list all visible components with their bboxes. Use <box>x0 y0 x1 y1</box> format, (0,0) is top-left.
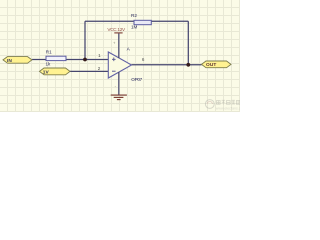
junction node at output <box>186 63 190 67</box>
svg-text:R2: R2 <box>131 13 137 18</box>
wire feedback right vertical <box>187 21 189 65</box>
svg-text:1k: 1k <box>46 61 52 66</box>
resistor R2 <box>131 13 151 29</box>
sheet background <box>0 0 240 112</box>
op-amp V+ pin <box>118 34 120 59</box>
svg-text:1M: 1M <box>131 24 138 29</box>
wire feedback top left segment <box>85 20 134 22</box>
junction node at inverting input <box>83 58 87 62</box>
wire IN port to R1 <box>32 59 46 61</box>
svg-text:IN: IN <box>7 58 12 64</box>
svg-text:1V: 1V <box>43 70 50 76</box>
op-amp U:A OP07 <box>98 34 145 95</box>
wire R1 to op-amp pin 1 <box>66 59 108 61</box>
svg-text:OP07: OP07 <box>131 77 142 82</box>
port IN <box>3 57 32 64</box>
ground <box>111 95 127 100</box>
watermark logo <box>205 100 245 111</box>
op-amp V- pin <box>118 72 120 95</box>
wire feedback left vertical <box>84 21 86 59</box>
svg-text:VCC 12V: VCC 12V <box>107 27 126 32</box>
svg-text:OUT: OUT <box>206 62 216 68</box>
wire feedback top right segment <box>151 20 188 22</box>
power VCC 12V <box>107 27 126 33</box>
port OUT <box>202 61 232 68</box>
port 1V <box>40 68 71 76</box>
svg-text:www.elecfans.com: www.elecfans.com <box>216 107 240 111</box>
wire 1V port to op-amp pin 2 <box>70 70 108 72</box>
wire op-amp output to OUT port <box>132 64 202 66</box>
svg-text:6: 6 <box>142 57 145 63</box>
resistor R1 <box>46 50 67 67</box>
svg-text:R1: R1 <box>46 50 52 55</box>
